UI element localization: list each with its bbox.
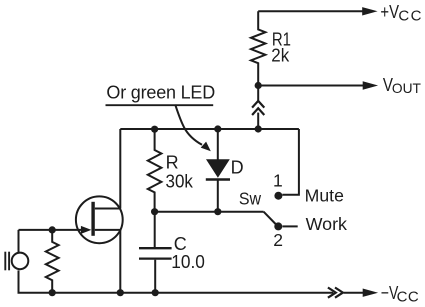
svg-text:Work: Work <box>306 214 348 234</box>
wire Vout rail <box>258 85 364 87</box>
diode D cathode bar <box>206 178 230 180</box>
svg-text:2k: 2k <box>271 46 290 66</box>
svg-text:Sw: Sw <box>239 189 261 209</box>
transistor Q1 gate arrowhead <box>81 226 92 234</box>
svg-text:CC: CC <box>398 8 422 25</box>
switch contact 2 (Work) <box>274 222 282 230</box>
microphone plate 1 <box>4 252 6 271</box>
switch Sw blade <box>264 212 276 224</box>
diode D triangle <box>206 159 230 178</box>
wire source to bottom rail <box>119 230 121 293</box>
resistor R1 <box>251 11 265 85</box>
resistor R2 (mic bias) <box>46 230 59 293</box>
annotation underline <box>106 104 214 106</box>
svg-text:Mute: Mute <box>305 185 344 205</box>
arrowhead +Vcc <box>362 7 377 15</box>
node LED anode <box>214 125 221 132</box>
continuation chevrons (up) <box>252 101 264 108</box>
switch contact 1 (Mute) <box>274 192 282 200</box>
microphone body circle <box>12 253 29 270</box>
microphone plate 2 <box>8 252 10 271</box>
svg-text:+V: +V <box>380 1 399 22</box>
resistor R 30k <box>148 129 162 212</box>
transistor Q1 channel bar <box>91 202 94 236</box>
microphone top lead <box>18 230 20 252</box>
transistor Q1 source stub <box>95 229 121 231</box>
wire Work stub <box>283 225 298 227</box>
node source bottom <box>117 289 124 296</box>
wire top rail <box>120 128 299 130</box>
svg-text:1: 1 <box>273 171 283 191</box>
node Vout junction <box>255 82 262 89</box>
wire gate line <box>19 229 86 231</box>
diode D cathode lead <box>217 180 219 212</box>
wire mid rail <box>155 211 264 213</box>
node R2 bottom <box>49 289 56 296</box>
arrowhead Vout <box>363 81 378 89</box>
node C bottom <box>152 289 159 296</box>
transistor Q1 body circle <box>76 196 123 243</box>
svg-text:30k: 30k <box>166 172 194 192</box>
diode D (LED) anode lead <box>217 129 219 160</box>
svg-text:2: 2 <box>273 230 283 250</box>
node R 30k top <box>151 126 158 133</box>
wire +Vcc rail <box>258 10 363 12</box>
node LED cathode <box>214 208 221 215</box>
svg-text:10.0: 10.0 <box>171 252 205 272</box>
node gate / R2 junction <box>49 226 56 233</box>
capacitor C bottom plate <box>139 257 172 259</box>
svg-text:CC: CC <box>397 289 419 306</box>
node mid rail left (R/C) <box>151 208 158 215</box>
transistor Q1 drain stub <box>95 208 121 210</box>
microphone bottom lead <box>18 270 20 292</box>
arrowhead -Vcc <box>363 289 378 297</box>
wire right rail to switch contact 1 <box>282 129 299 195</box>
capacitor C bottom lead <box>154 260 156 293</box>
capacitor C top lead <box>154 212 156 247</box>
wire bottom rail (left of chevrons) <box>18 292 334 294</box>
svg-text:Or green LED: Or green LED <box>106 83 215 103</box>
annotation arrow (Or green LED -> diode) <box>175 105 202 145</box>
wire drain to top rail <box>119 129 121 209</box>
continuation chevrons (right) <box>328 288 336 298</box>
svg-text:R: R <box>166 153 179 173</box>
svg-text:OUT: OUT <box>392 81 422 96</box>
node top rail / R1 junction <box>255 125 262 132</box>
wire bottom rail (right of chevrons) <box>344 292 364 294</box>
capacitor C top plate <box>139 247 172 249</box>
wire Vout node down to top rail <box>257 86 259 101</box>
svg-text:D: D <box>231 158 244 178</box>
